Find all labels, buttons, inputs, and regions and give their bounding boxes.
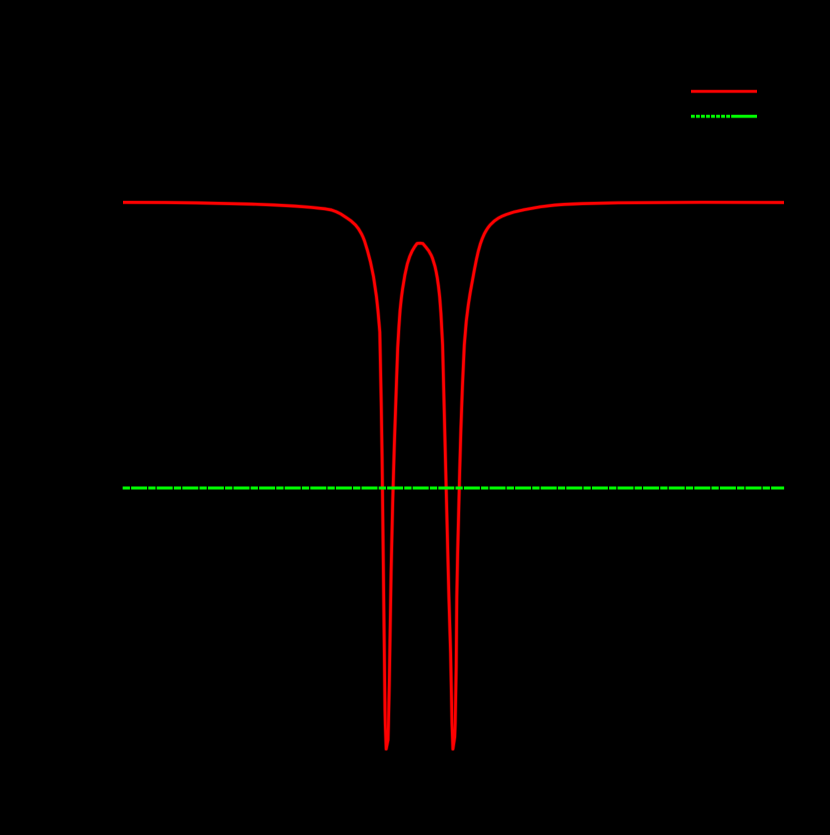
legend green solid tail — [731, 114, 757, 118]
green dashed horizontal reference line — [123, 487, 784, 490]
red curve — [123, 202, 784, 749]
legend green dashed sample — [691, 114, 730, 118]
green dashed horizontal reference line underlay — [123, 486, 784, 490]
red curve soft underlay — [123, 202, 784, 749]
legend red solid sample — [691, 90, 757, 94]
